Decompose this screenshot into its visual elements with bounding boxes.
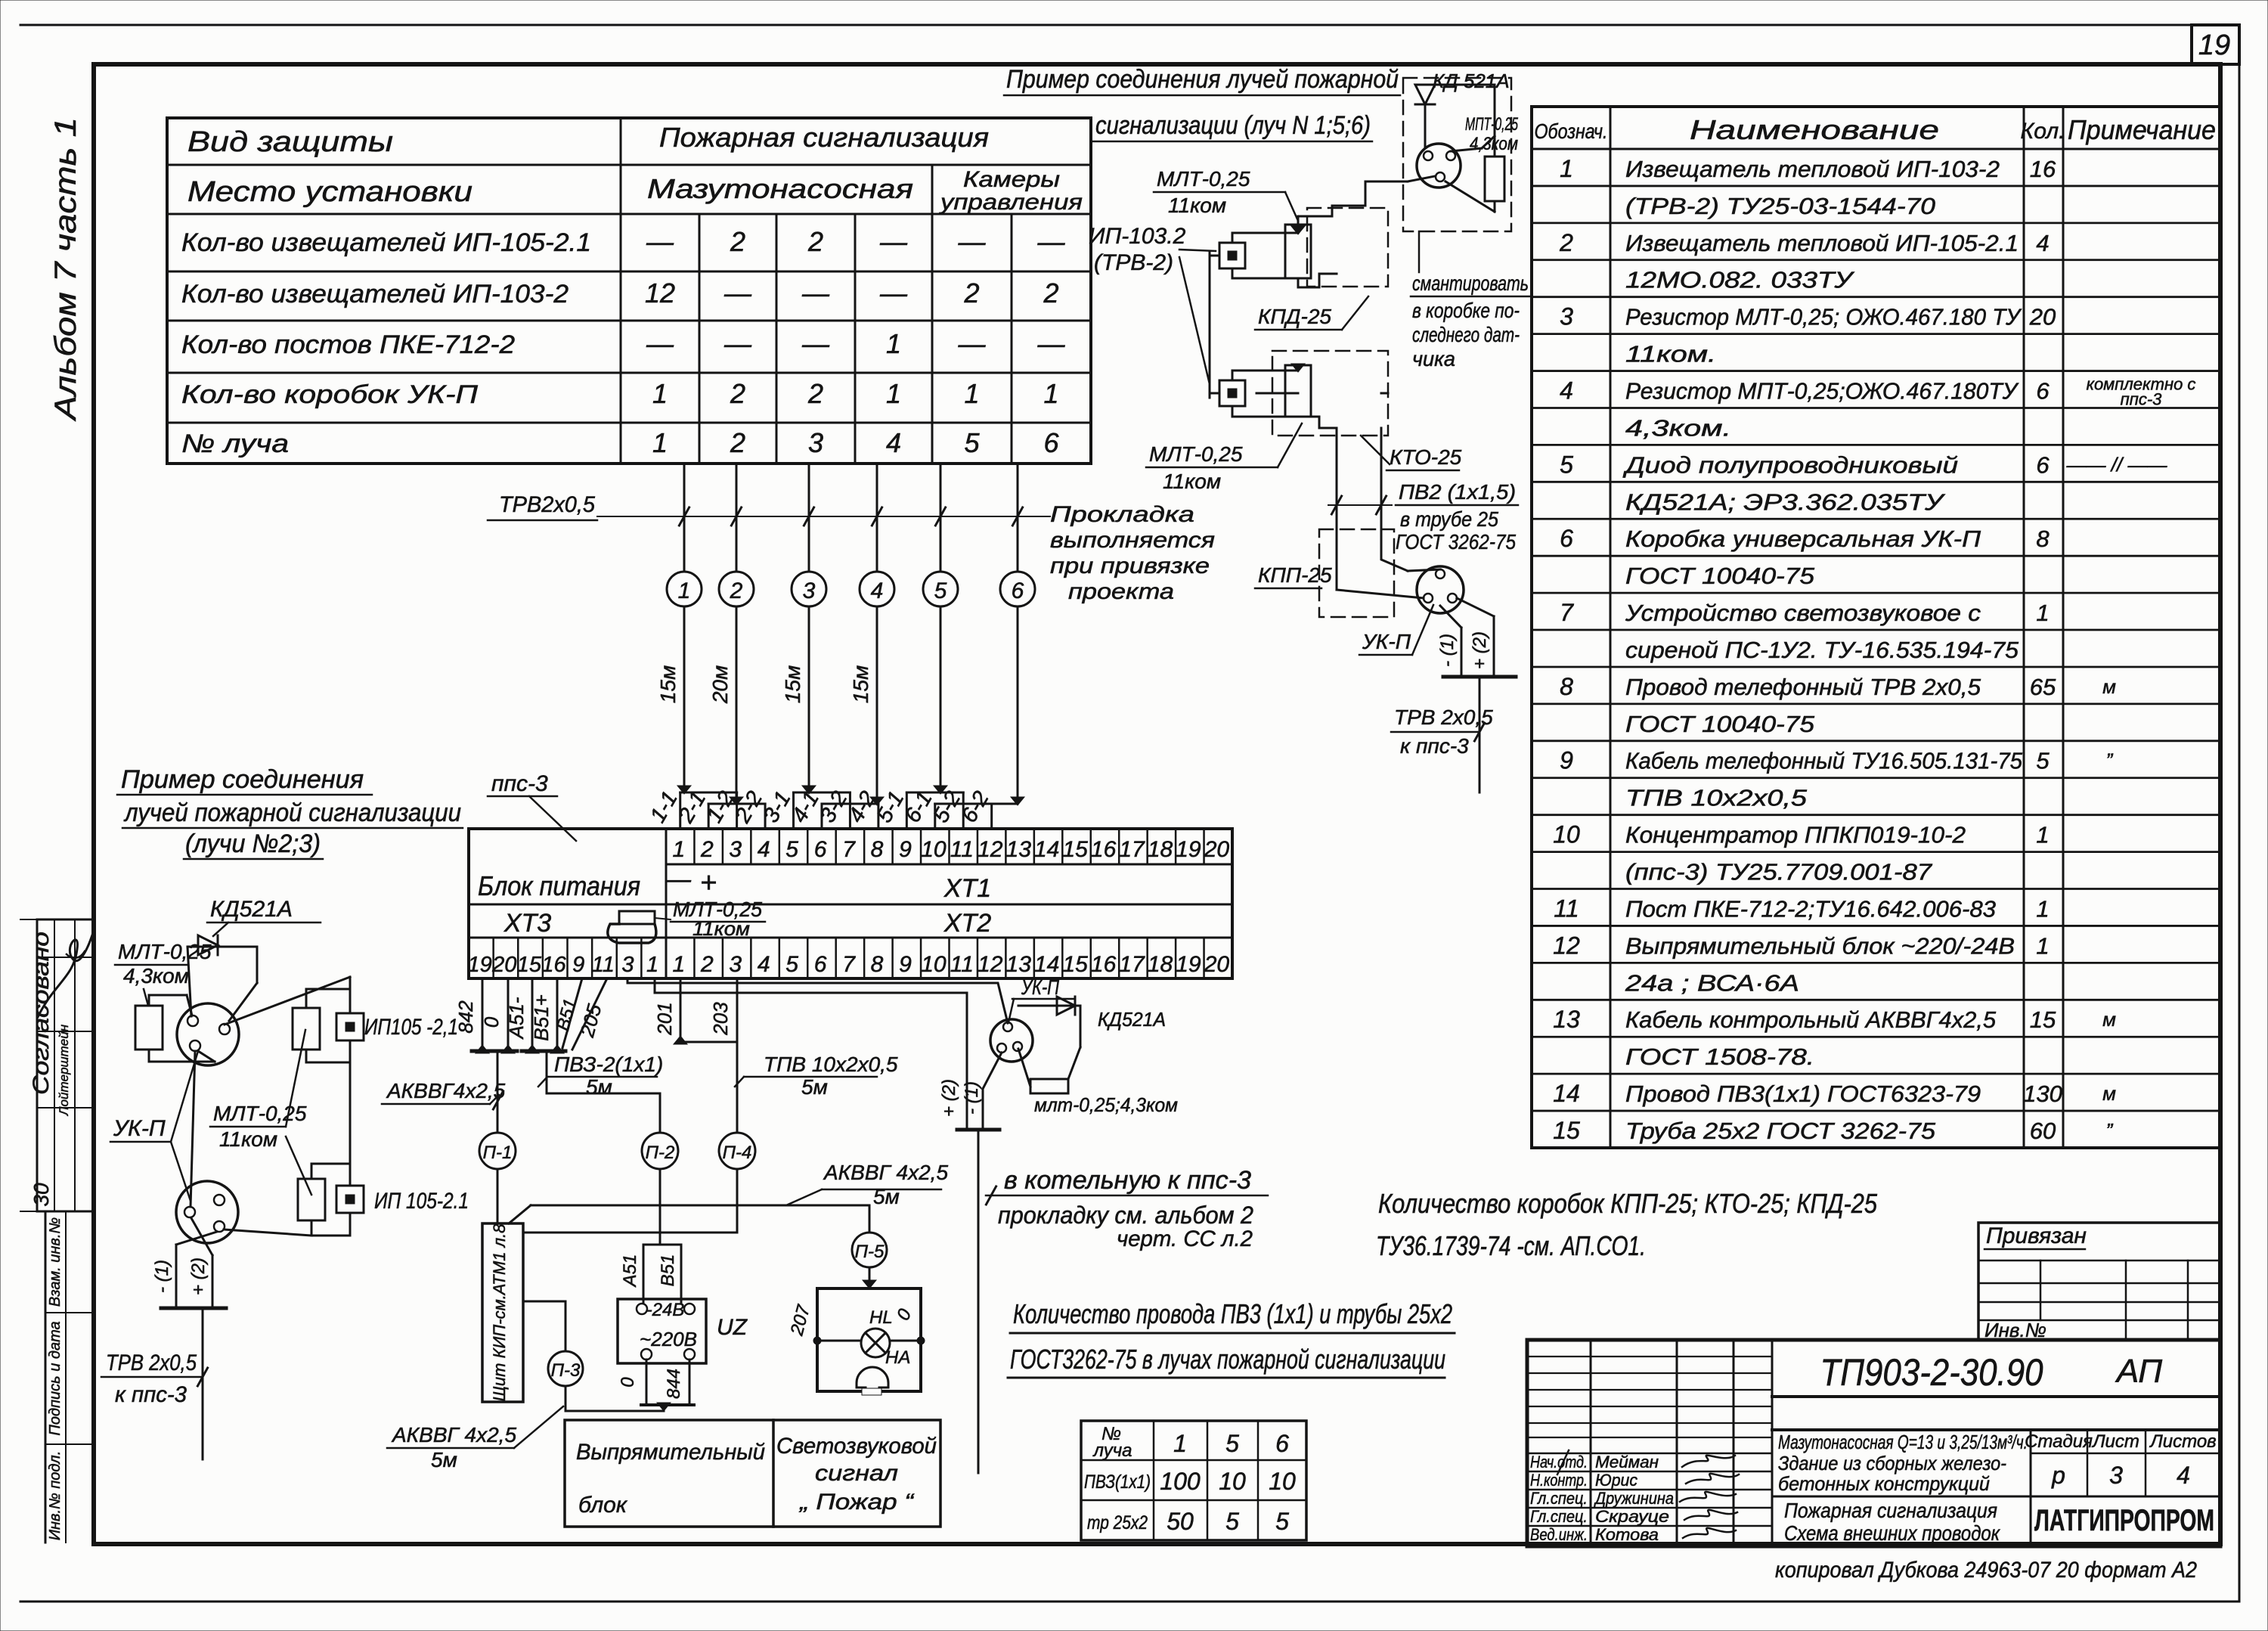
svg-text:15: 15 [1062, 952, 1088, 977]
svg-text:-24В: -24В [646, 1300, 685, 1320]
svg-text:—: — [879, 226, 908, 257]
resistor МЛТ-0,25 11ком on XT3 [619, 911, 655, 924]
svg-text:15: 15 [517, 953, 542, 977]
svg-text:- (1): - (1) [1437, 634, 1458, 667]
svg-text:УК-П: УК-П [1021, 975, 1059, 999]
svg-text:3: 3 [803, 578, 816, 603]
loop number circle 1 [667, 572, 702, 606]
svg-text:4: 4 [758, 837, 770, 862]
svg-text:Здание из сборных железо-: Здание из сборных железо- [1778, 1452, 2006, 1474]
svg-text:11ком.: 11ком. [1625, 341, 1716, 367]
svg-text:Камеры: Камеры [963, 167, 1060, 192]
svg-text:Пример соединения лучей пожарн: Пример соединения лучей пожарной [1006, 65, 1399, 94]
svg-text:8: 8 [2036, 526, 2050, 552]
svg-text:ппс-3: ппс-3 [491, 771, 548, 796]
svg-text:—: — [801, 278, 830, 309]
svg-text:18: 18 [1148, 837, 1173, 862]
svg-text:4: 4 [758, 952, 770, 977]
wire beam 4 [876, 464, 878, 572]
labels box Выпрямительный блок / Светозвуковой сигнал Пожар [565, 1420, 940, 1527]
svg-text:Светозвуковой: Светозвуковой [776, 1434, 937, 1459]
svg-text:МПТ-0,25: МПТ-0,25 [1465, 114, 1518, 135]
svg-text:14: 14 [1034, 837, 1059, 862]
svg-text:7: 7 [842, 837, 856, 862]
rectifier unit UZ [618, 1299, 706, 1363]
svg-text:Коробка универсальная УК-П: Коробка универсальная УК-П [1625, 526, 1981, 552]
svg-text:2: 2 [730, 427, 745, 458]
svg-text:МЛТ-0,25: МЛТ-0,25 [1149, 442, 1243, 466]
svg-text:ТПВ 10х2х0,5: ТПВ 10х2х0,5 [764, 1053, 898, 1076]
svg-text:Дружинина: Дружинина [1593, 1489, 1674, 1508]
svg-text:+: + [700, 867, 717, 899]
svg-text:6: 6 [814, 837, 827, 862]
svg-text:19: 19 [1176, 952, 1201, 977]
svg-text:11: 11 [1554, 895, 1579, 922]
svg-text:Н.контр.: Н.контр. [1530, 1471, 1588, 1490]
document number ТП903-2-30.90 АП [1772, 1395, 2220, 1398]
svg-text:13: 13 [1553, 1006, 1580, 1033]
terminal block XT1 cells [693, 829, 696, 864]
svg-text:бетонных конструкций: бетонных конструкций [1778, 1472, 1990, 1495]
svg-text:А51-: А51- [505, 997, 528, 1040]
wire bracket at 905 [680, 792, 737, 794]
svg-text:11ком: 11ком [1163, 470, 1221, 493]
svg-text:3: 3 [1560, 303, 1573, 330]
svg-text:А51: А51 [620, 1254, 640, 1288]
svg-text:Стадия: Стадия [2025, 1431, 2093, 1452]
svg-text:П-5: П-5 [855, 1242, 885, 1262]
svg-text:копировал Дубкова 24963-07: копировал Дубкова 24963-07 20 формат А2 [1775, 1558, 2197, 1583]
svg-text:12: 12 [978, 952, 1003, 977]
svg-text:в коробке по-: в коробке по- [1412, 299, 1520, 322]
svg-text:ГОСТ3262-75 в лучах пожарной: ГОСТ3262-75 в лучах пожарной сигнализаци… [1010, 1344, 1445, 1375]
svg-text:1: 1 [964, 378, 979, 409]
svg-text:19: 19 [468, 953, 492, 977]
svg-text:6: 6 [1275, 1430, 1289, 1457]
svg-text:Кол-во постов ПКЕ-712-2: Кол-во постов ПКЕ-712-2 [181, 330, 515, 359]
dashed box КПД-25 [1307, 208, 1388, 287]
svg-text:м: м [2102, 1082, 2116, 1105]
svg-text:КПП-25: КПП-25 [1258, 563, 1332, 587]
svg-text:- (1): - (1) [962, 1081, 982, 1115]
svg-text:15: 15 [1062, 837, 1088, 862]
svg-text:15м: 15м [656, 665, 680, 703]
svg-text:+ (2): + (2) [939, 1079, 959, 1117]
svg-text:(ппс-3) ТУ25.7709.001-87: (ппс-3) ТУ25.7709.001-87 [1625, 859, 1933, 885]
svg-text:3: 3 [621, 953, 634, 977]
svg-text:(ТРВ-2) ТУ25-03-1544-70: (ТРВ-2) ТУ25-03-1544-70 [1625, 193, 1935, 219]
svg-text:Гл.спец.: Гл.спец. [1530, 1489, 1588, 1508]
svg-text:10: 10 [921, 837, 947, 862]
svg-text:Извещатель тепловой ИП-103-2: Извещатель тепловой ИП-103-2 [1625, 156, 2000, 182]
svg-text:17: 17 [1119, 837, 1145, 862]
svg-text:15м: 15м [849, 665, 872, 703]
svg-text:- (1): - (1) [152, 1260, 172, 1293]
wire between УК-П circles left example [191, 1051, 195, 1207]
sheet number box [2192, 25, 2239, 64]
svg-text:УК-П: УК-П [113, 1116, 166, 1141]
svg-text:к ппс-3: к ппс-3 [115, 1382, 187, 1407]
svg-text:5: 5 [785, 952, 798, 977]
svg-text:проекта: проекта [1068, 579, 1174, 604]
svg-text:12: 12 [978, 837, 1003, 862]
svg-text:ппс-3: ппс-3 [2121, 389, 2163, 408]
svg-text:Котова: Котова [1595, 1525, 1659, 1544]
svg-text:Вед.инж.: Вед.инж. [1530, 1525, 1588, 1544]
svg-text:выполняется: выполняется [1050, 528, 1215, 553]
svg-text:15м: 15м [781, 665, 804, 703]
svg-text:Нач.отд.: Нач.отд. [1530, 1453, 1588, 1471]
trunk between groups left example [349, 1062, 352, 1164]
svg-text:смантировать: смантировать [1412, 271, 1529, 295]
svg-text:5: 5 [785, 837, 798, 862]
wire XT3-3 to УК-П [627, 978, 1008, 1023]
svg-text:1: 1 [886, 328, 901, 359]
svg-text:Наименование: Наименование [1690, 114, 1939, 145]
svg-text:Обознач.: Обознач. [1535, 119, 1608, 143]
svg-text:МЛТ-0,25: МЛТ-0,25 [1157, 167, 1250, 191]
svg-text:”: ” [2106, 749, 2114, 772]
junction box УК-П upper left example [177, 1003, 239, 1065]
svg-text:1: 1 [652, 378, 668, 409]
svg-text:9: 9 [1560, 747, 1573, 774]
svg-text:”: ” [2106, 1119, 2114, 1142]
svg-text:5м: 5м [873, 1185, 900, 1208]
terminal block XT2 cells [693, 938, 696, 978]
svg-text:Инв.№ подл.: Инв.№ подл. [47, 1451, 64, 1541]
svg-text:в трубе 25: в трубе 25 [1400, 507, 1498, 531]
svg-text:1: 1 [646, 953, 658, 977]
svg-text:Количество провода ПВ3 (1х1) и: Количество провода ПВ3 (1х1) и трубы 25х… [1013, 1298, 1452, 1329]
svg-text:20м: 20м [708, 665, 732, 704]
svg-text:в котельную к ппс-3: в котельную к ппс-3 [1004, 1166, 1251, 1195]
svg-text:лучей пожарной сигнализации: лучей пожарной сигнализации [123, 798, 461, 827]
svg-text:7: 7 [842, 952, 856, 977]
svg-text:(лучи №2;3): (лучи №2;3) [185, 829, 321, 858]
svg-text:Устройство светозвуковое с: Устройство светозвуковое с [1625, 600, 1981, 626]
wire 201 203 [680, 978, 682, 1042]
svg-text:Количество коробок КПП-25;: Количество коробок КПП-25; КТО-25; КПД-2… [1378, 1188, 1878, 1219]
svg-text:Мазутонасосная Q=13 и 3,25/13м: Мазутонасосная Q=13 и 3,25/13м³/ч. [1778, 1431, 2028, 1453]
svg-text:ТРВ 2х0,5: ТРВ 2х0,5 [106, 1350, 197, 1375]
svg-text:Извещатель тепловой ИП-105-2.1: Извещатель тепловой ИП-105-2.1 [1625, 230, 2019, 256]
svg-text:ИП105 -2,1: ИП105 -2,1 [364, 1015, 458, 1040]
wire to detectors group1 left example [225, 977, 350, 1025]
svg-text:5: 5 [964, 427, 980, 458]
svg-text:7: 7 [1560, 599, 1574, 626]
wire beam 1 [683, 464, 686, 572]
wire to ппс-3 top example [1479, 677, 1481, 792]
svg-text:1: 1 [886, 378, 901, 409]
svg-text:Провод ПВ3(1х1) ГОСТ6323-79: Провод ПВ3(1х1) ГОСТ6323-79 [1625, 1081, 1981, 1107]
svg-text:0: 0 [480, 1016, 503, 1028]
wire В51 205 stubs [562, 978, 582, 1048]
svg-text:5м: 5м [431, 1448, 457, 1471]
svg-text:ГОСТ 3262-75: ГОСТ 3262-75 [1396, 530, 1516, 553]
svg-text:203: 203 [709, 1002, 732, 1036]
svg-text:АКВВГ 4х2,5: АКВВГ 4х2,5 [823, 1161, 948, 1184]
wire beam 6 [1017, 464, 1019, 572]
lamp HL symbol [861, 1329, 890, 1357]
svg-text:—: — [958, 328, 987, 359]
svg-text:24а ; ВСА·6А: 24а ; ВСА·6А [1625, 969, 1799, 996]
wire bracket at 1346 [935, 803, 1018, 805]
detector group 2 left example [311, 1163, 350, 1165]
wire to ппс-3 left example [202, 1308, 204, 1459]
svg-text:Пример соединения: Пример соединения [121, 765, 364, 794]
svg-text:1: 1 [673, 952, 686, 977]
svg-text:2: 2 [730, 578, 743, 603]
svg-text:сигнал: сигнал [815, 1461, 898, 1486]
svg-text:11: 11 [950, 952, 974, 977]
svg-text:—— // ——: —— // —— [2066, 453, 2168, 476]
svg-text:UZ: UZ [717, 1315, 748, 1340]
svg-text:ЛАТГИПРОПРОМ: ЛАТГИПРОПРОМ [2034, 1504, 2214, 1537]
svg-text:3: 3 [2109, 1462, 2123, 1489]
loop number circle 6 [1000, 572, 1035, 606]
svg-text:Блок питания: Блок питания [478, 870, 640, 901]
wire beam 3 [808, 464, 810, 572]
terminal block XT3 cells [492, 938, 494, 978]
svg-text:Подпись и дата: Подпись и дата [47, 1321, 64, 1435]
svg-text:1: 1 [2036, 895, 2049, 922]
svg-text:18: 18 [1148, 952, 1173, 977]
svg-text:Провод телефонный ТРВ 2х0,5: Провод телефонный ТРВ 2х0,5 [1625, 674, 1981, 700]
svg-text:4,3ком.: 4,3ком. [1625, 414, 1731, 441]
svg-text:тр 25х2: тр 25х2 [1087, 1512, 1148, 1533]
svg-text:КД521А; ЭР3.362.035ТУ: КД521А; ЭР3.362.035ТУ [1625, 488, 1946, 515]
circuit breaker П-4 [719, 1133, 755, 1169]
svg-text:Диод полупроводниковый: Диод полупроводниковый [1622, 451, 1958, 478]
svg-text:Схема внешних проводок: Схема внешних проводок [1784, 1521, 2001, 1545]
svg-text:—: — [723, 278, 752, 309]
svg-text:5м: 5м [801, 1075, 828, 1099]
svg-text:11: 11 [950, 837, 974, 862]
svg-text:ТП903-2-30.90: ТП903-2-30.90 [1820, 1351, 2043, 1394]
svg-text:ГОСТ 10040-75: ГОСТ 10040-75 [1625, 563, 1815, 589]
svg-text:2: 2 [730, 226, 745, 257]
svg-text:КТО-25: КТО-25 [1390, 445, 1462, 469]
wire П-2 to UZ split [643, 1244, 681, 1246]
wires around УК-П top example [1494, 85, 1496, 157]
wires -(1) +(2) left example [191, 1218, 212, 1255]
svg-text:100: 100 [1160, 1468, 1201, 1495]
svg-text:2: 2 [700, 952, 714, 977]
wire beam 5 [940, 464, 942, 572]
svg-text:—: — [1037, 226, 1066, 257]
svg-text:20: 20 [2029, 304, 2056, 330]
svg-text:6: 6 [1043, 427, 1059, 458]
svg-text:сигнализации (луч N 1;5;6): сигнализации (луч N 1;5;6) [1095, 111, 1371, 140]
svg-text:5: 5 [1275, 1508, 1289, 1535]
circuit breaker П-1 [497, 1051, 499, 1133]
svg-text:Взам. инв.№: Взам. инв.№ [47, 1217, 64, 1307]
svg-text:КД521А: КД521А [210, 897, 293, 922]
loop number circle 3 [792, 572, 826, 606]
svg-text:6: 6 [1012, 578, 1024, 603]
svg-text:4: 4 [2036, 230, 2049, 256]
svg-text:Пожарная сигнализация: Пожарная сигнализация [1784, 1499, 1997, 1522]
terminal block ППС-3 outline [469, 829, 1232, 978]
svg-text:16: 16 [1091, 952, 1117, 977]
alarm box HL HA [817, 1288, 921, 1391]
svg-text:10: 10 [1219, 1468, 1246, 1495]
svg-text:блок: блок [578, 1493, 628, 1518]
wires to bus top example [1336, 571, 1338, 590]
svg-text:—: — [665, 865, 692, 894]
svg-text:Мейман: Мейман [1595, 1453, 1659, 1471]
svg-text:2: 2 [807, 378, 823, 409]
svg-text:HL: HL [869, 1307, 893, 1328]
svg-text:11ком: 11ком [1168, 194, 1226, 217]
svg-text:Привязан: Привязан [1986, 1223, 2087, 1248]
svg-text:5м: 5м [586, 1075, 612, 1099]
svg-text:11ком: 11ком [219, 1127, 277, 1151]
svg-text:4: 4 [871, 578, 884, 603]
resistor млт-0,25 4,3ком right [1080, 1006, 1082, 1047]
svg-text:10: 10 [1269, 1468, 1296, 1495]
svg-text:65: 65 [2030, 674, 2056, 700]
bell HA symbol [857, 1367, 888, 1392]
svg-text:КД 521А: КД 521А [1433, 70, 1510, 92]
signature in approval stamp [38, 930, 94, 1017]
svg-text:ГОСТ 1508-78.: ГОСТ 1508-78. [1625, 1043, 1814, 1070]
leader смантировать [1418, 231, 1421, 272]
svg-text:10: 10 [921, 952, 947, 977]
svg-text:844: 844 [664, 1369, 684, 1399]
second trunk wire [1381, 428, 1408, 571]
svg-text:В51+: В51+ [530, 994, 553, 1040]
svg-text:Скрауце: Скрауце [1595, 1507, 1669, 1526]
svg-text:следнего дат-: следнего дат- [1412, 323, 1520, 346]
svg-text:2: 2 [963, 278, 979, 309]
svg-text:3: 3 [729, 837, 742, 862]
svg-text:р: р [2051, 1462, 2065, 1489]
svg-text:1: 1 [2036, 822, 2049, 848]
loop number circle 2 [719, 572, 754, 606]
svg-text:ПВЗ(1х1): ПВЗ(1х1) [1084, 1471, 1151, 1493]
svg-text:ГОСТ 10040-75: ГОСТ 10040-75 [1625, 711, 1815, 737]
svg-text:20: 20 [491, 953, 516, 977]
svg-text:1: 1 [1173, 1430, 1187, 1457]
svg-text:19: 19 [2198, 29, 2230, 61]
wire trunk right top example [1256, 392, 1298, 395]
svg-text:20: 20 [1204, 952, 1230, 977]
title block frame [1527, 1340, 2220, 1546]
svg-text:~220В: ~220В [640, 1328, 697, 1350]
circuit breaker П-5 [852, 1233, 887, 1267]
bottom edge gap of alarm box [862, 1388, 881, 1395]
svg-text:Гл.спец.: Гл.спец. [1530, 1507, 1588, 1526]
wire Щит КИП to П-5 [509, 1205, 531, 1223]
svg-text:Примечание: Примечание [2068, 114, 2216, 145]
dashed box КТО-25 [1272, 351, 1388, 436]
svg-text:Щит КИП-см.АТМ1 л.8: Щит КИП-см.АТМ1 л.8 [490, 1223, 509, 1401]
svg-text:1: 1 [2036, 600, 2049, 626]
svg-text:Кабель контрольный АКВВГ4х2,5: Кабель контрольный АКВВГ4х2,5 [1625, 1006, 1997, 1033]
svg-text:Кол-во извещателей ИП-103-2: Кол-во извещателей ИП-103-2 [181, 280, 569, 309]
svg-text:6: 6 [814, 952, 827, 977]
approval stamp Согласовано [37, 919, 94, 1211]
svg-text:13: 13 [1006, 837, 1032, 862]
svg-text:15: 15 [2030, 1006, 2056, 1033]
svg-text:9: 9 [572, 953, 584, 977]
svg-text:прокладку см. альбом 2: прокладку см. альбом 2 [998, 1202, 1253, 1229]
svg-text:МЛТ-0,25: МЛТ-0,25 [118, 940, 212, 963]
svg-text:5: 5 [1225, 1508, 1239, 1535]
junction box УК-П lower left example [176, 1181, 238, 1243]
svg-text:1: 1 [2036, 932, 2049, 959]
stage sheet cells [2030, 1430, 2032, 1546]
trunk between top groups [1210, 255, 1219, 257]
wires below UZ [646, 1360, 648, 1405]
svg-text:12: 12 [1553, 932, 1580, 959]
svg-text:ПВЗ-2(1х1): ПВЗ-2(1х1) [554, 1053, 663, 1076]
svg-text:ХТ1: ХТ1 [943, 874, 991, 903]
svg-text:Вид защиты: Вид защиты [187, 126, 393, 158]
svg-text:2: 2 [807, 226, 823, 257]
svg-text:№ луча: № луча [181, 429, 289, 458]
sheet outer border [20, 24, 2239, 26]
svg-text:Прокладка: Прокладка [1050, 502, 1194, 527]
svg-text:луча: луча [1092, 1440, 1132, 1461]
svg-text:5: 5 [1560, 451, 1573, 478]
svg-text:Кол-во извещателей ИП-105-2.: Кол-во извещателей ИП-105-2.1 [181, 228, 591, 257]
svg-text:Мазутонасосная: Мазутонасосная [647, 173, 913, 204]
svg-text:5: 5 [2036, 748, 2050, 774]
svg-text:чика: чика [1412, 347, 1455, 371]
svg-text:12МО.082. 033ТУ: 12МО.082. 033ТУ [1625, 267, 1855, 293]
svg-text:11ком: 11ком [692, 917, 750, 940]
svg-text:17: 17 [1119, 952, 1145, 977]
svg-text:15: 15 [1553, 1117, 1580, 1144]
circuit breaker П-3 [523, 1301, 565, 1303]
svg-text:—: — [646, 226, 674, 257]
step wires to dashed trunk top1 [1298, 181, 1408, 225]
svg-text:201: 201 [653, 1002, 676, 1035]
svg-text:1: 1 [678, 578, 691, 603]
svg-text:сиреной ПС-1У2. ТУ-16.535.194: сиреной ПС-1У2. ТУ-16.535.194-75 [1625, 637, 2019, 663]
svg-text:Альбом 7 часть 1: Альбом 7 часть 1 [49, 117, 82, 421]
svg-text:30: 30 [29, 1183, 53, 1207]
svg-text:Согласовано: Согласовано [29, 932, 54, 1095]
wires +(2) -(1) below УК-П [983, 1053, 1002, 1089]
svg-text:20: 20 [1204, 837, 1230, 862]
svg-text:1: 1 [1560, 155, 1573, 182]
detector group 1 top example [1219, 243, 1245, 268]
svg-text:Выпрямительный: Выпрямительный [576, 1440, 765, 1465]
svg-text:16: 16 [541, 953, 566, 977]
svg-text:—: — [1037, 328, 1066, 359]
svg-text:—: — [958, 226, 987, 257]
svg-text:Юрис: Юрис [1595, 1471, 1637, 1490]
svg-text:6: 6 [2036, 377, 2050, 404]
svg-text:Пост ПКЕ-712-2;ТУ16.642.006-83: Пост ПКЕ-712-2;ТУ16.642.006-83 [1625, 895, 1996, 922]
svg-text:АКВВГ 4х2,5: АКВВГ 4х2,5 [391, 1423, 516, 1447]
svg-text:ТРВ2х0,5: ТРВ2х0,5 [499, 492, 595, 517]
svg-text:14: 14 [1034, 952, 1059, 977]
svg-text:60: 60 [2030, 1118, 2056, 1144]
wire bracket at 1160 [822, 803, 878, 805]
svg-text:8: 8 [1560, 673, 1573, 700]
svg-text:Лойтерштейн: Лойтерштейн [57, 1024, 71, 1116]
wire 842/0 to П-1 [482, 978, 484, 1051]
svg-text:50: 50 [1167, 1508, 1194, 1535]
svg-text:6: 6 [1560, 525, 1573, 552]
svg-text:4,3ком: 4,3ком [123, 964, 189, 988]
svg-text:2: 2 [700, 837, 714, 862]
svg-text:ИП-103.2: ИП-103.2 [1089, 224, 1186, 249]
